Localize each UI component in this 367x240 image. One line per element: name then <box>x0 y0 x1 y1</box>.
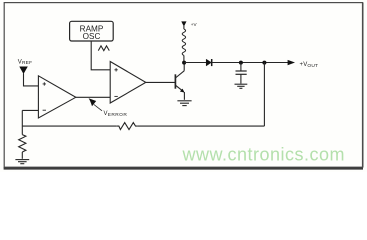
svg-text:VREF: VREF <box>18 59 32 66</box>
ground below Q1 emitter <box>177 101 191 106</box>
wire feedback bottom left segment <box>22 125 117 127</box>
wire feedback vertical from output node <box>263 63 265 127</box>
resistor R2 to ground <box>19 135 26 152</box>
border frame <box>4 3 363 169</box>
svg-text:VERROR: VERROR <box>104 111 128 118</box>
ramp oscillator box U3 <box>70 21 114 41</box>
inductor L1 <box>182 29 185 55</box>
wire +V to inductor <box>183 26 185 29</box>
node +V supply arrow <box>181 21 186 26</box>
wire divider node vertical <box>21 110 23 134</box>
wire collector node to diode <box>184 62 206 64</box>
node VREF supply arrow <box>19 67 28 75</box>
ground below R2 <box>15 160 29 164</box>
wire feedback bottom right segment <box>138 125 265 127</box>
wire comparator output to Q1 base <box>146 81 175 83</box>
wire error amp - input to divider node <box>22 109 38 111</box>
ground below C1 <box>235 84 248 88</box>
op-amp U2 PWM comparator <box>110 62 146 104</box>
node VERROR arrow <box>89 98 97 106</box>
node collector junction <box>182 61 186 65</box>
transistor Q1 NPN switch <box>175 63 184 100</box>
sawtooth waveform symbol <box>98 46 109 51</box>
wire VREF to error amp + input <box>24 74 39 86</box>
wire error amp output to comparator - input <box>76 96 110 98</box>
node capacitor junction <box>239 61 243 65</box>
wire R2 to ground <box>21 152 23 159</box>
wire diode to output arrow <box>212 62 288 64</box>
leader line VERROR <box>94 104 102 110</box>
svg-text:www.cntronics.com: www.cntronics.com <box>182 144 346 164</box>
capacitor C1 <box>236 63 247 84</box>
node output junction <box>262 61 266 65</box>
diode D1 <box>206 59 212 66</box>
wire inductor to collector node <box>183 55 185 62</box>
op-amp U1 error amplifier <box>38 76 75 118</box>
svg-text:OSC: OSC <box>83 32 101 41</box>
svg-text:+V: +V <box>191 22 198 27</box>
wire ramp osc to comparator + input <box>91 41 110 70</box>
svg-text:+VOUT: +VOUT <box>300 62 319 69</box>
node output arrow <box>288 60 295 65</box>
resistor R1 feedback <box>117 123 138 130</box>
